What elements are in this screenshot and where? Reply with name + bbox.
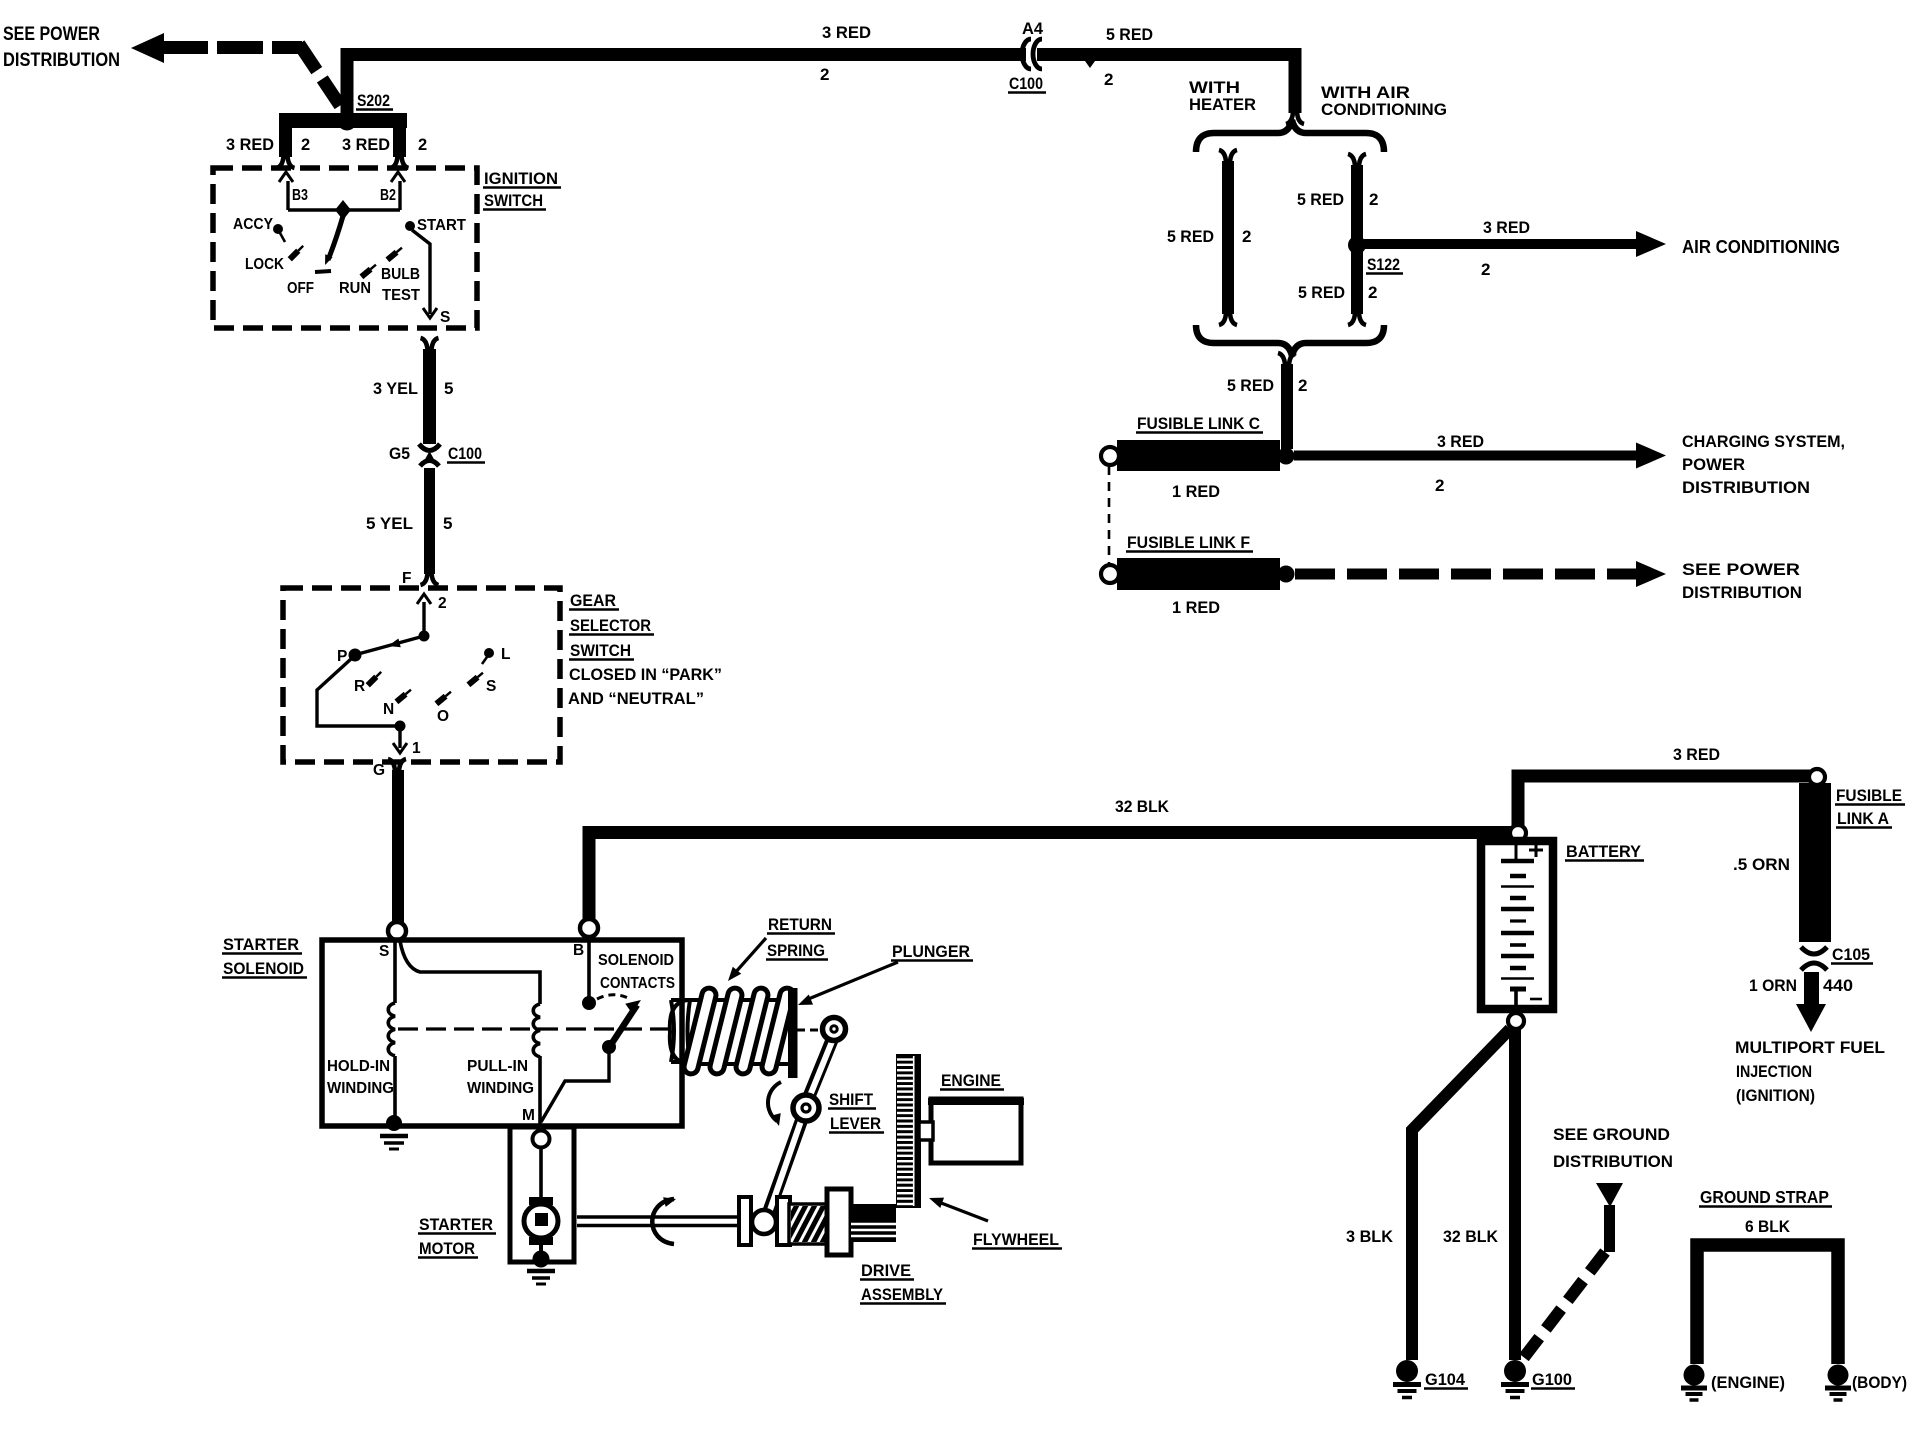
svg-text:DRIVE: DRIVE bbox=[861, 1261, 911, 1280]
svg-text:LOCK: LOCK bbox=[245, 256, 285, 273]
svg-text:START: START bbox=[417, 217, 467, 234]
svg-text:2: 2 bbox=[301, 136, 310, 154]
svg-text:S: S bbox=[379, 943, 389, 960]
svg-text:SEE POWER: SEE POWER bbox=[3, 24, 100, 45]
svg-text:3 RED: 3 RED bbox=[822, 23, 871, 42]
svg-text:HEATER: HEATER bbox=[1189, 95, 1256, 114]
svg-text:MOTOR: MOTOR bbox=[419, 1239, 475, 1258]
svg-text:2: 2 bbox=[1481, 260, 1490, 279]
svg-text:FUSIBLE: FUSIBLE bbox=[1836, 786, 1902, 805]
svg-text:SOLENOID: SOLENOID bbox=[598, 952, 674, 969]
svg-text:B: B bbox=[573, 942, 584, 959]
svg-text:WINDING: WINDING bbox=[327, 1080, 394, 1097]
svg-text:.5 ORN: .5 ORN bbox=[1733, 855, 1790, 874]
svg-text:M: M bbox=[522, 1107, 535, 1124]
svg-text:2: 2 bbox=[1369, 190, 1378, 209]
svg-text:DISTRIBUTION: DISTRIBUTION bbox=[1682, 478, 1810, 497]
svg-text:2: 2 bbox=[1242, 227, 1251, 246]
svg-text:RETURN: RETURN bbox=[768, 915, 832, 934]
svg-text:6 BLK: 6 BLK bbox=[1745, 1217, 1791, 1236]
svg-text:ASSEMBLY: ASSEMBLY bbox=[861, 1285, 944, 1304]
svg-text:2: 2 bbox=[1298, 376, 1307, 395]
svg-text:FUSIBLE LINK C: FUSIBLE LINK C bbox=[1137, 414, 1260, 433]
svg-text:1 RED: 1 RED bbox=[1172, 482, 1220, 501]
svg-text:DISTRIBUTION: DISTRIBUTION bbox=[1553, 1152, 1673, 1171]
svg-text:(IGNITION): (IGNITION) bbox=[1736, 1086, 1815, 1105]
svg-text:A4: A4 bbox=[1022, 19, 1044, 38]
svg-text:DISTRIBUTION: DISTRIBUTION bbox=[1682, 583, 1802, 602]
svg-text:SWITCH: SWITCH bbox=[484, 191, 543, 210]
svg-text:3 YEL: 3 YEL bbox=[373, 379, 418, 398]
svg-text:C100: C100 bbox=[448, 444, 482, 463]
svg-text:5: 5 bbox=[443, 514, 452, 533]
svg-text:2: 2 bbox=[418, 136, 427, 154]
svg-text:SEE POWER: SEE POWER bbox=[1682, 560, 1800, 579]
svg-text:3 RED: 3 RED bbox=[226, 136, 274, 154]
svg-text:FUSIBLE LINK F: FUSIBLE LINK F bbox=[1127, 533, 1250, 552]
svg-text:G104: G104 bbox=[1425, 1370, 1466, 1389]
svg-text:RUN: RUN bbox=[339, 280, 371, 297]
svg-text:5 RED: 5 RED bbox=[1297, 190, 1344, 209]
svg-text:WINDING: WINDING bbox=[467, 1080, 534, 1097]
svg-text:SPRING: SPRING bbox=[767, 941, 825, 960]
svg-text:B3: B3 bbox=[292, 187, 308, 204]
svg-text:2: 2 bbox=[1368, 283, 1377, 302]
svg-text:(ENGINE): (ENGINE) bbox=[1711, 1373, 1785, 1392]
svg-text:5 RED: 5 RED bbox=[1298, 283, 1345, 302]
svg-text:TEST: TEST bbox=[382, 287, 420, 304]
svg-text:DISTRIBUTION: DISTRIBUTION bbox=[3, 50, 120, 71]
svg-text:LINK A: LINK A bbox=[1837, 809, 1889, 828]
svg-text:ENGINE: ENGINE bbox=[941, 1071, 1001, 1090]
svg-text:STARTER: STARTER bbox=[223, 935, 299, 954]
svg-text:B2: B2 bbox=[380, 187, 396, 204]
svg-text:32 BLK: 32 BLK bbox=[1443, 1227, 1499, 1246]
svg-text:AND “NEUTRAL”: AND “NEUTRAL” bbox=[568, 689, 704, 708]
svg-text:1 ORN: 1 ORN bbox=[1749, 976, 1797, 995]
svg-text:1: 1 bbox=[412, 740, 421, 757]
svg-text:GEAR: GEAR bbox=[570, 591, 616, 610]
svg-text:G: G bbox=[373, 762, 385, 779]
svg-text:1 RED: 1 RED bbox=[1172, 598, 1220, 617]
svg-text:SHIFT: SHIFT bbox=[829, 1090, 874, 1109]
svg-text:G5: G5 bbox=[389, 444, 410, 463]
svg-text:5 RED: 5 RED bbox=[1106, 25, 1153, 44]
svg-text:ACCY: ACCY bbox=[233, 216, 274, 233]
svg-text:2: 2 bbox=[1435, 476, 1444, 495]
svg-text:FLYWHEEL: FLYWHEEL bbox=[973, 1230, 1059, 1249]
svg-text:3 RED: 3 RED bbox=[1437, 432, 1484, 451]
svg-text:N: N bbox=[383, 701, 394, 718]
svg-text:R: R bbox=[354, 678, 365, 695]
svg-text:PULL-IN: PULL-IN bbox=[467, 1058, 528, 1075]
svg-text:S202: S202 bbox=[357, 91, 390, 110]
svg-text:440: 440 bbox=[1823, 976, 1853, 995]
svg-text:2: 2 bbox=[1104, 70, 1113, 89]
svg-text:POWER: POWER bbox=[1682, 455, 1745, 474]
svg-text:F: F bbox=[402, 570, 411, 587]
svg-text:CONDITIONING: CONDITIONING bbox=[1321, 100, 1447, 119]
svg-text:2: 2 bbox=[820, 65, 829, 84]
svg-text:L: L bbox=[501, 646, 510, 663]
svg-text:S: S bbox=[440, 309, 450, 326]
svg-text:OFF: OFF bbox=[287, 280, 314, 297]
svg-text:STARTER: STARTER bbox=[419, 1215, 493, 1234]
svg-text:3 RED: 3 RED bbox=[342, 136, 390, 154]
svg-text:S: S bbox=[486, 678, 496, 695]
svg-text:CONTACTS: CONTACTS bbox=[600, 975, 675, 992]
svg-text:CLOSED IN “PARK”: CLOSED IN “PARK” bbox=[569, 665, 722, 684]
svg-text:SWITCH: SWITCH bbox=[570, 641, 631, 660]
svg-text:(BODY): (BODY) bbox=[1852, 1373, 1907, 1392]
svg-text:5 RED: 5 RED bbox=[1167, 227, 1214, 246]
svg-text:CHARGING SYSTEM,: CHARGING SYSTEM, bbox=[1682, 432, 1845, 451]
svg-text:SEE GROUND: SEE GROUND bbox=[1553, 1125, 1670, 1144]
svg-text:3 RED: 3 RED bbox=[1673, 745, 1720, 764]
svg-text:GROUND STRAP: GROUND STRAP bbox=[1700, 1187, 1829, 1207]
svg-text:SELECTOR: SELECTOR bbox=[570, 616, 651, 635]
svg-text:HOLD-IN: HOLD-IN bbox=[327, 1058, 390, 1075]
svg-text:AIR CONDITIONING: AIR CONDITIONING bbox=[1682, 237, 1840, 257]
svg-text:IGNITION: IGNITION bbox=[484, 169, 558, 188]
svg-text:INJECTION: INJECTION bbox=[1736, 1062, 1812, 1081]
svg-text:5 YEL: 5 YEL bbox=[366, 514, 413, 533]
svg-text:32 BLK: 32 BLK bbox=[1115, 797, 1170, 816]
svg-text:S122: S122 bbox=[1367, 255, 1400, 274]
svg-text:3 RED: 3 RED bbox=[1483, 218, 1530, 237]
svg-text:SOLENOID: SOLENOID bbox=[223, 959, 304, 978]
svg-text:5: 5 bbox=[444, 379, 453, 398]
svg-text:MULTIPORT FUEL: MULTIPORT FUEL bbox=[1735, 1038, 1885, 1057]
svg-text:5 RED: 5 RED bbox=[1227, 376, 1274, 395]
svg-text:BULB: BULB bbox=[381, 266, 420, 283]
svg-text:G100: G100 bbox=[1532, 1370, 1572, 1389]
svg-text:3 BLK: 3 BLK bbox=[1346, 1227, 1394, 1246]
svg-text:C100: C100 bbox=[1009, 74, 1043, 93]
svg-text:BATTERY: BATTERY bbox=[1566, 842, 1642, 861]
svg-text:LEVER: LEVER bbox=[830, 1114, 881, 1133]
svg-text:C105: C105 bbox=[1832, 945, 1870, 964]
svg-text:PLUNGER: PLUNGER bbox=[892, 942, 970, 961]
svg-text:2: 2 bbox=[438, 595, 447, 612]
svg-text:O: O bbox=[437, 708, 449, 725]
